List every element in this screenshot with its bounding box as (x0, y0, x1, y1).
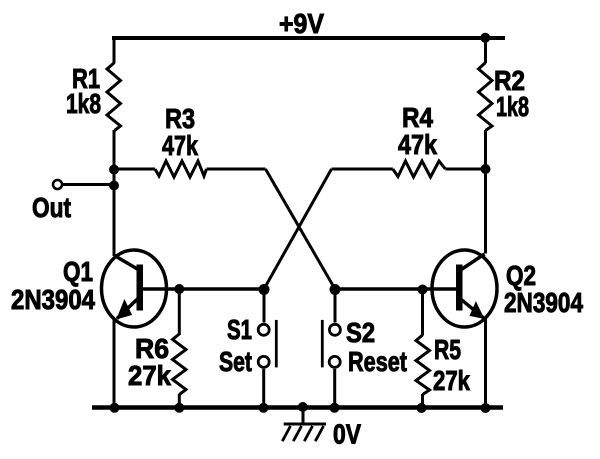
node dot +9V/R2 junction (480, 33, 490, 43)
svg-text:2N3904: 2N3904 (504, 287, 583, 318)
svg-text:1k8: 1k8 (66, 88, 101, 119)
node dot emitter Q2 at 0V rail (481, 403, 491, 413)
svg-text:Reset: Reset (348, 346, 407, 377)
wire Q2 base rail (334, 287, 456, 291)
node dot Out junction (109, 181, 119, 191)
svg-text:S2: S2 (346, 317, 375, 348)
wire R5 top lead (421, 289, 424, 336)
node dot R5 top junction (418, 285, 428, 295)
resistor R5 (416, 335, 430, 395)
wire R4 left lead (332, 168, 393, 171)
wire Out stub (62, 183, 114, 186)
resistor R1 (107, 63, 121, 131)
svg-text:47k: 47k (162, 130, 198, 161)
wire R1 top lead from rail (113, 36, 116, 63)
wire 0V bottom rail (92, 405, 503, 410)
wire R6 bottom lead (178, 394, 181, 408)
ground (282, 406, 326, 441)
node dot S1 bottom at 0V rail (259, 403, 269, 413)
wire R2 top lead from rail (484, 36, 487, 63)
wire Q2 emitter to 0V rail (484, 319, 487, 409)
resistor R6 (173, 334, 187, 395)
node dot emitter Q1 at 0V rail (110, 403, 120, 413)
switch S1 Set (258, 290, 276, 408)
svg-text:27k: 27k (128, 360, 171, 391)
node dot R2/R4 junction (481, 164, 491, 174)
wire Q1 emitter to 0V rail (113, 319, 116, 409)
terminal Out (53, 180, 62, 189)
switch S2 Reset (322, 290, 340, 408)
svg-text:27k: 27k (433, 365, 470, 396)
wire cross-couple R3 to Q2 base (266, 169, 336, 289)
svg-text:47k: 47k (398, 129, 437, 160)
wire cross-couple R4 to Q1 base (264, 169, 332, 289)
node dot R5 bottom at 0V rail (417, 403, 427, 413)
wire Q1 base rail (143, 287, 269, 291)
svg-text:S1: S1 (227, 314, 252, 345)
node dot ground at 0V rail (298, 402, 308, 412)
wire R2 bottom to Q2 collector (484, 130, 487, 254)
wire +9V top rail (112, 36, 505, 40)
wire R3 right lead (207, 168, 266, 171)
node dot S1 top junction (259, 284, 270, 295)
svg-text:Set: Set (219, 346, 252, 377)
svg-text:+9V: +9V (279, 8, 324, 39)
svg-text:Out: Out (32, 192, 71, 223)
node dot R6 bottom at 0V rail (174, 403, 184, 413)
node dot S2 top junction (330, 284, 341, 295)
resistor R2 (479, 63, 493, 131)
svg-text:0V: 0V (333, 419, 361, 450)
transistor Q2 (432, 250, 497, 327)
svg-text:Q1: Q1 (63, 256, 93, 287)
svg-text:1k8: 1k8 (496, 91, 529, 122)
resistor R4 (393, 161, 446, 177)
wire R6 top lead (178, 289, 181, 335)
wire R3 left lead (114, 168, 155, 171)
svg-text:R5: R5 (434, 334, 461, 365)
wire R5 bottom lead (421, 394, 424, 408)
wire R1 bottom to Q1 collector (113, 130, 116, 256)
transistor Q1 (102, 250, 167, 327)
node dot R6 top junction (174, 284, 184, 294)
resistor R3 (155, 161, 207, 177)
node dot R1/R3 junction (109, 165, 119, 175)
node dot S2 bottom at 0V rail (330, 403, 340, 413)
svg-text:2N3904: 2N3904 (11, 284, 95, 315)
wire R4 right lead (445, 168, 485, 171)
